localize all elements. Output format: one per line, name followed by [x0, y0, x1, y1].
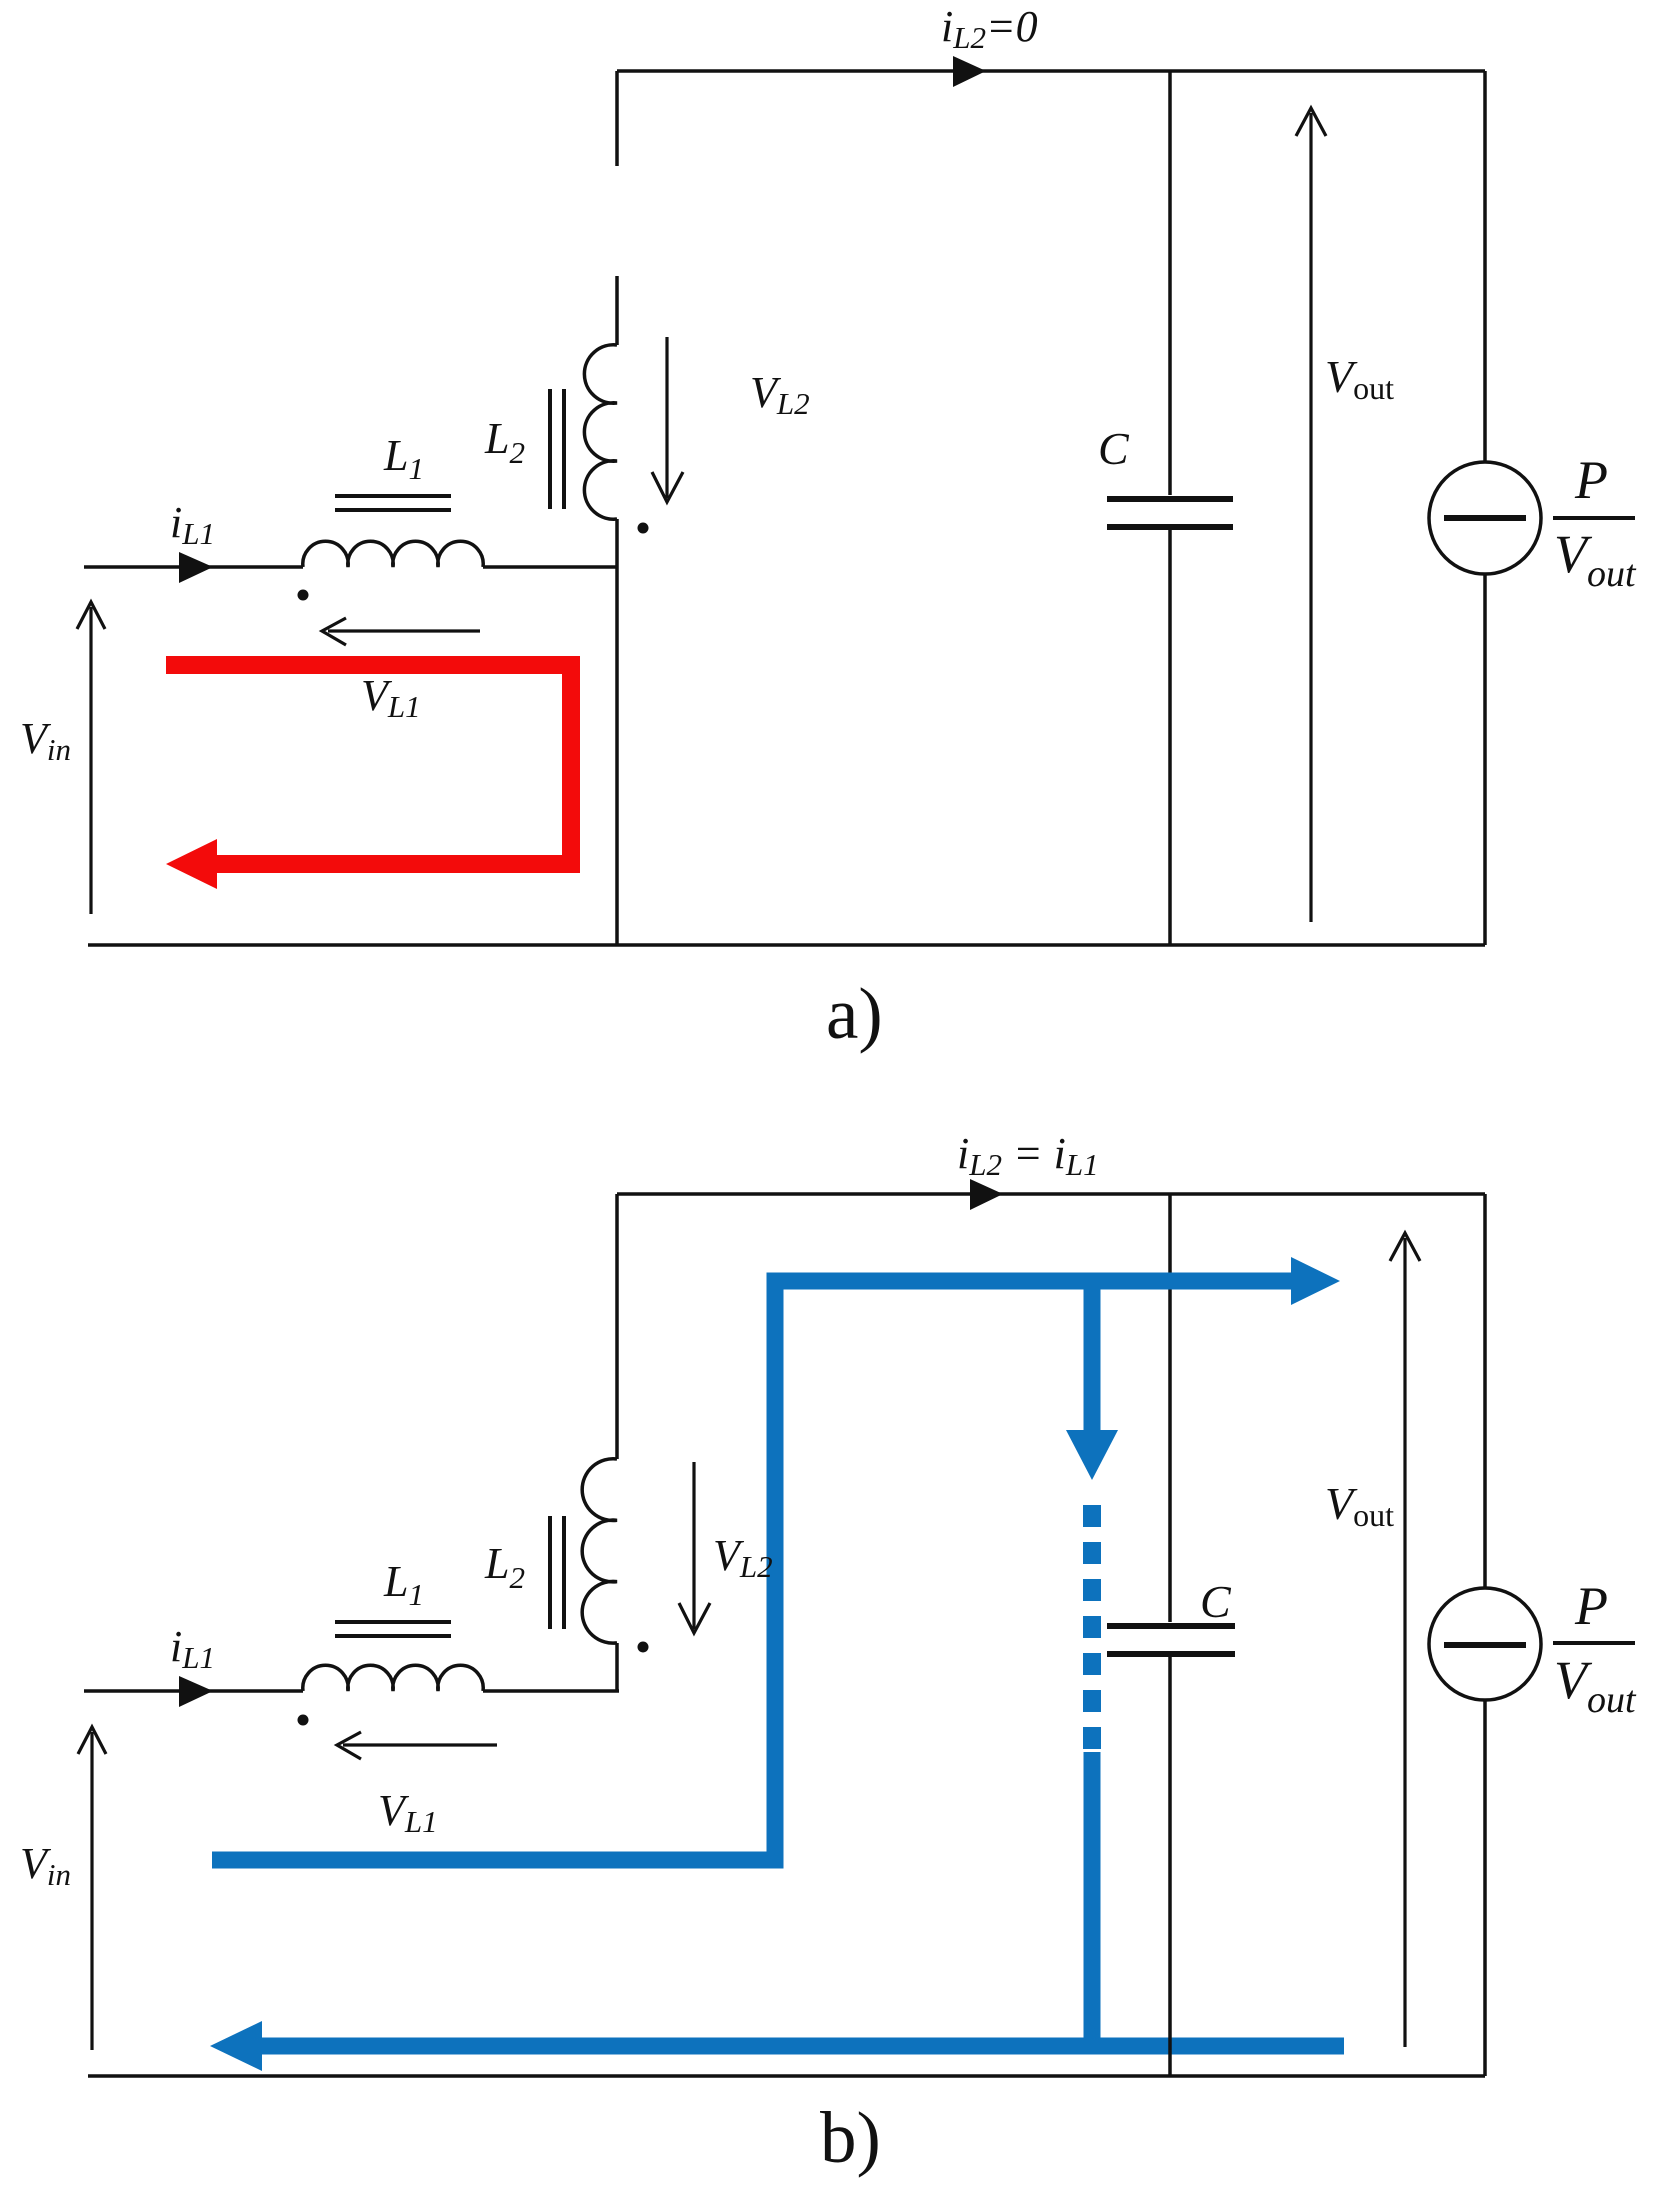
load source circle (a)	[1429, 462, 1541, 574]
dot marker of L2 (a)	[638, 523, 649, 534]
svg-text:C: C	[1200, 1576, 1232, 1627]
blue current path upper segments (b), drawn over wires	[212, 1273, 1292, 1860]
Vin reference arrow (a)	[77, 602, 105, 914]
svg-text:P: P	[1574, 450, 1608, 510]
wire: right rail upper (to load)	[1483, 71, 1487, 462]
transformer core lines L1 (b)	[335, 1622, 451, 1636]
current arrow iL1 on input wire (a)	[179, 552, 213, 583]
wire: L2 bottom stub to junction	[615, 1643, 619, 1692]
blue wire: VL1 horizontal + riser + top run to output	[212, 1281, 1292, 1860]
capacitor C plates (b)	[1107, 1626, 1235, 1654]
minus sign in load source (b)	[1444, 1642, 1526, 1648]
svg-text:b): b)	[820, 2097, 881, 2178]
current arrow iL2 on top rail (b)	[970, 1179, 1003, 1210]
load source circle (b)	[1429, 1588, 1541, 1700]
wire: capacitor branch lower (b)	[1168, 1657, 1172, 2076]
wire: bottom rail b	[88, 2074, 1485, 2078]
wire: L2 bottom stub down to bottom rail	[615, 519, 619, 945]
inductor L2 coil (b)	[582, 1459, 617, 1643]
wire: capacitor branch upper (b)	[1168, 1194, 1172, 1622]
wire: capacitor branch lower	[1168, 530, 1172, 945]
VL1 polarity arrow (b)	[337, 1732, 497, 1759]
Vout reference arrow (a)	[1296, 108, 1326, 922]
dot marker of L1 (b)	[298, 1715, 309, 1726]
transformer core lines L1 (a)	[335, 496, 451, 510]
VL2 polarity arrow (b)	[679, 1462, 710, 1633]
blue arrowhead to output (b)	[1291, 1257, 1340, 1305]
red loop arrowhead (a)	[166, 839, 217, 889]
capacitor C plates (a)	[1107, 499, 1233, 527]
red current loop path (a)	[166, 665, 571, 864]
blue dashed section through capacitor (b)	[1083, 1505, 1101, 1749]
transformer core lines L2 (b)	[550, 1516, 564, 1629]
wire: capacitor branch upper	[1168, 71, 1172, 495]
current arrow iL2 on top rail (a)	[953, 56, 986, 87]
wire: bottom rail a	[88, 943, 1485, 947]
wire: segment below gap down to L2 top	[615, 276, 619, 345]
blue return path lower segments (b), drawn under wires	[262, 1752, 1344, 2046]
dot marker of L2 (b)	[638, 1642, 649, 1653]
minus sign in load source (a)	[1444, 515, 1526, 521]
wire: right rail lower (b)	[1483, 1700, 1487, 2076]
blue wire: bottom return segment	[262, 2038, 1344, 2055]
Vout reference arrow (b)	[1390, 1233, 1420, 2047]
wire: L1 to center node	[483, 565, 617, 569]
wire: right rail upper (b)	[1483, 1194, 1487, 1588]
blue return arrowhead (b)	[210, 2021, 262, 2071]
wire: input segment (b)	[84, 1689, 303, 1693]
svg-text:P: P	[1574, 1576, 1608, 1636]
wire: left vertical down to L2	[615, 1194, 619, 1459]
transformer core lines L2 (a)	[550, 389, 564, 509]
VL2 polarity arrow (a)	[652, 337, 683, 502]
dot marker of L1 (a)	[298, 590, 309, 601]
blue arrowhead down branch (b)	[1066, 1430, 1118, 1480]
blue wire: lower vertical from dashed section to bottom path	[1084, 1752, 1101, 2046]
wire: right rail lower	[1483, 574, 1487, 945]
inductor L2 coil (vertical, 3 bumps bulging left)	[584, 345, 617, 519]
wire: L1 to junction (b)	[483, 1689, 619, 1693]
wire: top rail a	[617, 69, 1485, 73]
inductor L1 coil (b)	[303, 1665, 483, 1691]
blue wire: branch down toward capacitor	[1084, 1273, 1101, 1430]
svg-text:C: C	[1098, 423, 1130, 474]
VL1 polarity arrow (a)	[322, 618, 480, 645]
wire: upper branch segment above gap (node to L2)	[615, 71, 619, 166]
svg-text:a): a)	[826, 973, 883, 1054]
Vin reference arrow (b)	[78, 1727, 106, 2050]
wire: top rail b	[617, 1192, 1485, 1196]
wire: input segment from Vin to L1	[84, 565, 303, 569]
current arrow iL1 on input wire (b)	[179, 1676, 213, 1707]
inductor L1 coil (horizontal, 4 bumps bulging up)	[303, 541, 483, 567]
